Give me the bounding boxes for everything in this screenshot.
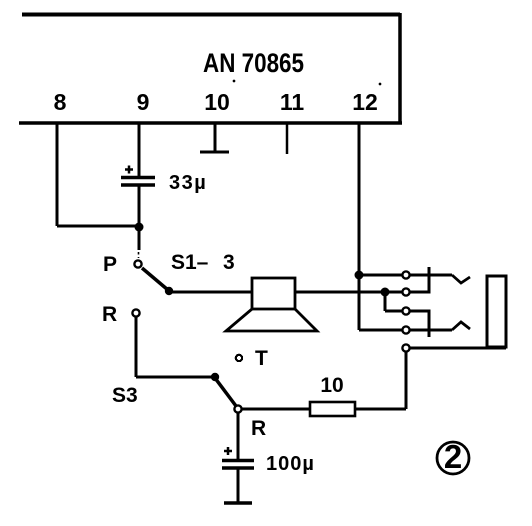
node C junction dot on pin12 wire [355,271,364,280]
svg-text:2: 2 [444,438,462,475]
wire node B down to row3 [384,292,387,311]
svg-text:100µ: 100µ [266,453,315,475]
node A junction dot [135,223,144,232]
jack J1 row4 contact circle [402,326,409,333]
svg-text:S3: S3 [112,384,138,407]
node B junction dot [381,288,390,297]
svg-text:8: 8 [54,89,67,115]
svg-text:11: 11 [280,89,305,115]
svg-text:3: 3 [223,251,235,274]
speaker LS1 cone [226,309,317,331]
svg-text:S1–: S1– [171,251,209,274]
jack J1 row1 blade tip [452,275,470,283]
switch contact R open circle [132,309,139,316]
IC U1 AN70865 top edge [22,13,400,17]
svg-text:P: P [103,253,117,276]
switch S1-3 contact P open circle [134,260,141,267]
capacitor C1 33u bottom plate [121,183,155,187]
jack J1 riser row2 to row1 [428,267,431,294]
capacitor C1 33u top plate [121,176,155,180]
svg-text:10: 10 [320,374,343,397]
wire pin8 vertical [56,123,59,226]
wire faded stub above contact P [138,252,140,258]
jack J1 body [487,276,506,347]
wire S3 to contact R horizontal [136,376,215,379]
wire resistor R1 right lead [355,408,406,411]
switch S3 pole circle [234,405,241,412]
jack J1 row4 wire left [359,329,402,332]
jack J1 row4 blade tip [452,322,470,330]
jack J1 row3 wire left [385,310,402,313]
IC U1 right edge [398,13,402,123]
wire resistor R1 left lead to S3 [242,408,310,411]
jack J1 row4 wire right [410,329,452,332]
speck 2 [379,83,382,86]
wire speaker to node B [295,291,402,294]
wire pin10 stub [214,123,217,152]
wire C2 bottom to ground [237,468,240,503]
svg-text:9: 9 [137,89,150,115]
switch S1-3 blade [142,268,168,290]
svg-text:T: T [255,347,268,370]
svg-text:AN 70865: AN 70865 [203,48,304,78]
wire sleeve down to resistor R1 [405,352,408,409]
switch S3 blade pivot dot [211,373,219,381]
jack J1 sleeve wire to body [410,347,506,350]
jack J1 row3 wire right [410,310,429,313]
jack J1 row3 contact circle [402,307,409,314]
capacitor C2 100u bottom plate [222,466,254,470]
ground bar [224,501,252,505]
svg-text:R: R [251,417,266,440]
resistor R1 body [310,402,355,416]
speaker LS1 frame [252,278,295,309]
wire pin9 to capacitor C1 [138,123,141,178]
jack J1 row1 wire right [410,274,452,277]
wire C1 bottom to node A [138,185,141,250]
speck 1 [233,80,236,83]
wire pin12 vertical [358,123,361,330]
wire pin8 horizontal to node A [57,225,139,228]
wire pin11 stub [286,123,289,154]
jack J1 riser row3 to row4 [428,310,431,338]
wire blade pivot to speaker [169,291,252,294]
jack J1 sleeve contact circle [402,344,409,351]
capacitor C2 100u top plate [222,459,254,463]
ground bar pin10 [200,151,229,154]
wire S3 circle down to capacitor C2 [237,413,240,460]
svg-text:R: R [102,303,117,326]
switch S1-3 blade pivot dot [165,287,173,295]
svg-text:33µ: 33µ [169,172,207,194]
jack J1 row1 contact circle [402,271,409,278]
speaker T terminal circle [236,355,242,361]
IC U1 bottom pin-row edge [19,121,402,125]
jack J1 row1 wire left [359,274,402,277]
switch S3 blade [215,378,236,406]
capacitor C2 plus sign [224,447,232,455]
svg-text:10: 10 [204,89,230,115]
wire contact R vertical [135,317,138,377]
jack J1 row2 contact circle [402,288,409,295]
figure number circle [437,442,469,474]
jack J1 row2 wire right of contact [410,291,429,294]
svg-text:12: 12 [352,89,378,115]
capacitor C1 plus sign [125,166,133,174]
